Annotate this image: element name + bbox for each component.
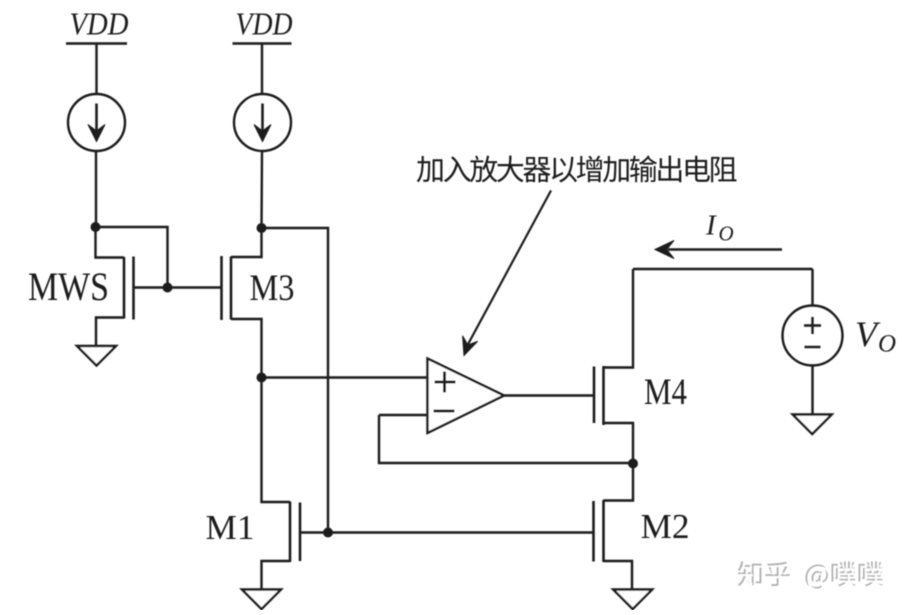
svg-text:VDD: VDD [70, 6, 129, 42]
svg-text:VDD: VDD [236, 6, 293, 42]
svg-text:O: O [878, 331, 896, 358]
svg-text:M1: M1 [206, 508, 255, 547]
svg-text:M3: M3 [250, 268, 295, 309]
svg-text:I: I [705, 210, 717, 242]
svg-text:M2: M2 [641, 507, 690, 546]
svg-text:O: O [719, 222, 734, 246]
svg-text:MWS: MWS [28, 264, 109, 309]
svg-text:M4: M4 [644, 372, 687, 413]
